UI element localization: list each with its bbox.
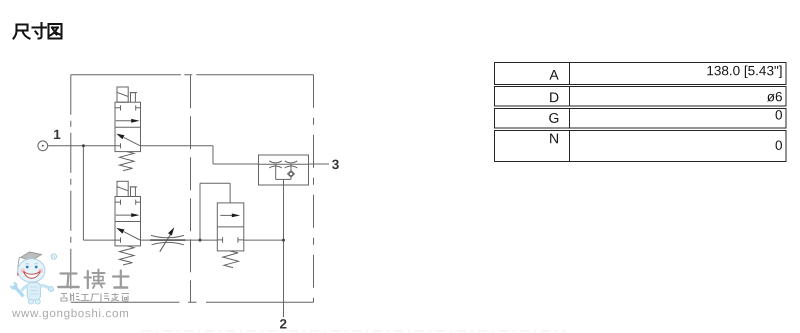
solenoid coil V1 bbox=[117, 87, 137, 102]
title 尺寸图 (hand-drawn CJK strokes) bbox=[14, 23, 62, 39]
throttle lower arc bbox=[152, 242, 185, 244]
wire branch down from node A bbox=[82, 146, 84, 240]
mascot legs bbox=[29, 300, 34, 305]
valve V1 body bbox=[115, 102, 141, 151]
bottom box arrowhead bbox=[116, 134, 124, 140]
svg-text:D: D bbox=[549, 89, 559, 105]
manual override box bbox=[131, 93, 136, 103]
top box arrowhead V2 bbox=[131, 213, 139, 217]
svg-text:138.0 [5.43"]: 138.0 [5.43"] bbox=[706, 63, 782, 78]
table row A box bbox=[495, 63, 787, 85]
check valve diamond bbox=[288, 171, 295, 178]
博 bbox=[85, 277, 92, 279]
throttle X2 bbox=[285, 161, 298, 168]
图 bbox=[49, 24, 62, 39]
enclosure top border bbox=[71, 74, 314, 76]
faint bottom dash-dot line bbox=[142, 330, 565, 332]
svg-text:G: G bbox=[549, 110, 560, 126]
table row D box bbox=[495, 87, 787, 107]
svg-text:N: N bbox=[549, 130, 559, 146]
top box arrowhead bbox=[131, 119, 139, 123]
mascot torso bbox=[27, 283, 40, 301]
svg-text:1: 1 bbox=[53, 127, 61, 142]
wire check-valve drop bbox=[283, 185, 285, 240]
wire port1 to valve V1 bbox=[48, 145, 115, 147]
bottom box port T bbox=[115, 143, 121, 148]
工 bbox=[61, 272, 77, 274]
尺 bbox=[17, 25, 28, 31]
enclosure left border (dash-dot) bbox=[70, 75, 72, 302]
solenoid coil V2 bbox=[117, 181, 137, 196]
drop line inside box bbox=[283, 179, 285, 185]
svg-text:0: 0 bbox=[775, 107, 783, 122]
wire branch to valve V2 bbox=[83, 239, 115, 241]
wire valve V1 outlet to jog bbox=[141, 145, 214, 147]
svg-text:2: 2 bbox=[280, 316, 288, 331]
return spring V2 bbox=[120, 246, 135, 265]
node B junction dot (pilot tap) bbox=[199, 239, 202, 242]
svg-text:www.gongboshi.com: www.gongboshi.com bbox=[11, 307, 129, 320]
wire port 2 drop bbox=[283, 240, 285, 317]
port 1 symbol (circle with dot) bbox=[38, 141, 48, 151]
throttle heavy line segment bbox=[150, 239, 186, 241]
V3 arrowhead bbox=[232, 214, 240, 218]
mascot right arm bbox=[40, 286, 50, 289]
table column divider bbox=[569, 63, 571, 162]
mascot cheeks bbox=[21, 269, 26, 274]
mascot eyes bbox=[26, 266, 29, 269]
return spring V1 bbox=[120, 152, 135, 171]
wire valve V2 outlet through throttle to valve V3 bbox=[141, 239, 218, 241]
wire valve V3 to node C bbox=[244, 239, 284, 241]
throttle adjust arrowhead bbox=[168, 227, 174, 235]
寸 bbox=[33, 26, 47, 28]
mascot head bbox=[18, 259, 45, 283]
top box flow arrow shaft bbox=[220, 214, 234, 216]
svg-text:0: 0 bbox=[775, 138, 783, 153]
mascot mortarboard cap bbox=[21, 252, 42, 261]
enclosure bottom border bbox=[71, 301, 314, 303]
bottom box arrowhead V2 bbox=[116, 228, 124, 234]
wire flow-control box to port 3 bbox=[309, 163, 330, 165]
table row G box bbox=[495, 109, 787, 129]
bypass bottom run bbox=[276, 178, 291, 180]
watermark 智能工厂服务商 (simplified strokes) bbox=[61, 293, 129, 301]
bottom box exhaust diagonal bbox=[124, 137, 140, 145]
check valve stem upper bbox=[290, 164, 292, 170]
士 bbox=[113, 275, 129, 277]
top box flow arrow shaft bbox=[116, 120, 132, 122]
wire jog to flow-control box bbox=[213, 163, 259, 165]
svg-text:3: 3 bbox=[332, 157, 340, 172]
mascot mouth bbox=[24, 271, 41, 278]
throttle adjust arrow shaft bbox=[160, 235, 171, 252]
mascot left arm bbox=[22, 286, 28, 292]
wire jog down bbox=[212, 146, 214, 164]
registered mark bbox=[51, 254, 56, 259]
node A junction dot bbox=[82, 144, 85, 147]
bottom box blocked ports bbox=[217, 237, 222, 243]
valve V3 body bbox=[217, 203, 244, 251]
check valve ball bbox=[289, 172, 293, 176]
return spring V3 bbox=[223, 251, 239, 268]
mascot wrench bbox=[16, 288, 24, 297]
flow control outer box bbox=[259, 155, 309, 185]
main line through box bbox=[259, 163, 309, 165]
enclosure right border (dash-dot) bbox=[313, 75, 315, 302]
pilot wire across bbox=[200, 182, 230, 184]
divider line (dashed) between manifold sections bbox=[190, 75, 192, 302]
watermark 工博士 (hand-drawn strokes) bbox=[59, 270, 129, 289]
throttle upper arc bbox=[151, 235, 184, 237]
throttle X1 bbox=[269, 161, 282, 168]
mascot tassel bbox=[18, 257, 20, 272]
node C junction dot bbox=[282, 239, 285, 242]
svg-text:A: A bbox=[549, 67, 559, 83]
top box port marks bbox=[115, 105, 121, 110]
svg-text:ø6: ø6 bbox=[767, 89, 783, 104]
check valve stem lower bbox=[290, 177, 292, 179]
table row N box bbox=[495, 131, 787, 162]
pilot wire down to valve V3 bbox=[229, 183, 231, 203]
valve V2 body bbox=[115, 197, 141, 246]
pilot wire up bbox=[199, 183, 201, 240]
bypass down from X1 bbox=[275, 164, 277, 179]
